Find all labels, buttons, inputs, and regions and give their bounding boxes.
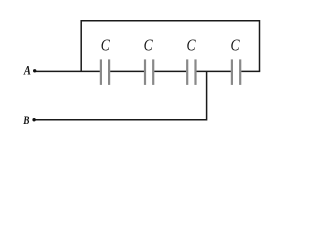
svg-text:C: C <box>144 36 154 55</box>
node A dot <box>33 69 36 72</box>
wire: capacitor C1 to capacitor C2 <box>110 70 144 72</box>
capacitor C1 <box>100 59 110 85</box>
node B dot <box>32 118 35 121</box>
capacitor C3 <box>186 59 196 85</box>
svg-text:B: B <box>23 113 30 127</box>
wire: capacitor C3 to capacitor C4 <box>197 70 231 72</box>
svg-text:C: C <box>231 36 241 55</box>
wire: junction between C3 and C4 down and left to terminal B <box>36 71 207 119</box>
svg-text:C: C <box>101 36 111 55</box>
svg-text:A: A <box>23 63 31 78</box>
wire: top bypass loop (left vertical, top horizontal, right vertical) <box>81 21 259 72</box>
capacitor C4 <box>231 59 242 85</box>
wire: terminal A to capacitor C1 <box>36 70 100 72</box>
svg-text:C: C <box>187 36 197 55</box>
capacitor C2 <box>144 59 154 85</box>
wire: capacitor C4 to right side of bypass loop <box>241 70 260 72</box>
wire: capacitor C2 to capacitor C3 <box>154 70 186 72</box>
